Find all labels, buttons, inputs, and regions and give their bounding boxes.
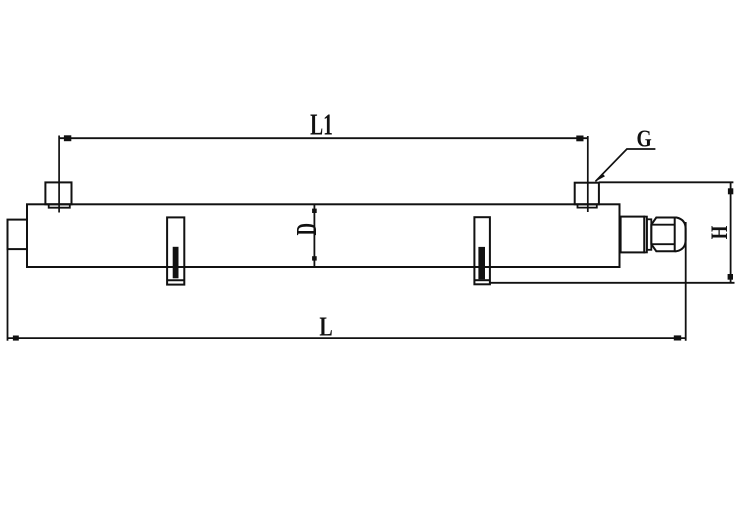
svg-text:D: D [292, 223, 323, 235]
dimension H bottom extension line [490, 282, 735, 284]
dimension L1 line [59, 137, 588, 139]
gland collar [644, 217, 647, 253]
right clamp [474, 217, 490, 284]
left clamp screw bar [173, 247, 179, 278]
dimension D bottom arrow [312, 256, 317, 260]
svg-text:L1: L1 [310, 107, 333, 142]
right port [575, 183, 599, 205]
dimension H top arrow [728, 188, 733, 194]
left clamp inner line [167, 279, 184, 281]
gland washer [647, 219, 651, 250]
left port center line [58, 136, 60, 213]
dimension L right extension line [685, 222, 687, 341]
dimension H top extension line [599, 181, 734, 183]
dimension L left arrow [13, 336, 19, 341]
gland nut chamfer lines [651, 224, 674, 226]
dimension H bottom arrow [728, 274, 733, 280]
left port [45, 182, 71, 204]
label G leader arrowhead [595, 173, 605, 182]
dimension L left extension line [7, 249, 9, 341]
dimension D line [313, 204, 315, 267]
dimension L line [8, 337, 686, 339]
right port center line [587, 136, 589, 212]
gland body [621, 217, 645, 253]
left end cap [8, 220, 28, 250]
right clamp screw bar [478, 247, 485, 279]
left port flare [49, 204, 70, 207]
left clamp [167, 217, 184, 284]
svg-text:H: H [708, 226, 733, 240]
gland nut [651, 218, 674, 252]
right port flare [578, 204, 597, 207]
gland dome [675, 218, 686, 252]
svg-text:L: L [319, 313, 332, 343]
dimension H line [730, 182, 732, 282]
svg-text:G: G [637, 124, 652, 152]
dimension L right arrow [674, 335, 681, 340]
dimension L1 right arrow [576, 136, 583, 142]
dimension L1 left arrow [64, 135, 71, 141]
right clamp inner line [474, 279, 490, 281]
dimension D top arrow [312, 209, 317, 213]
label G leader line [596, 149, 656, 181]
cylinder body [27, 204, 620, 267]
